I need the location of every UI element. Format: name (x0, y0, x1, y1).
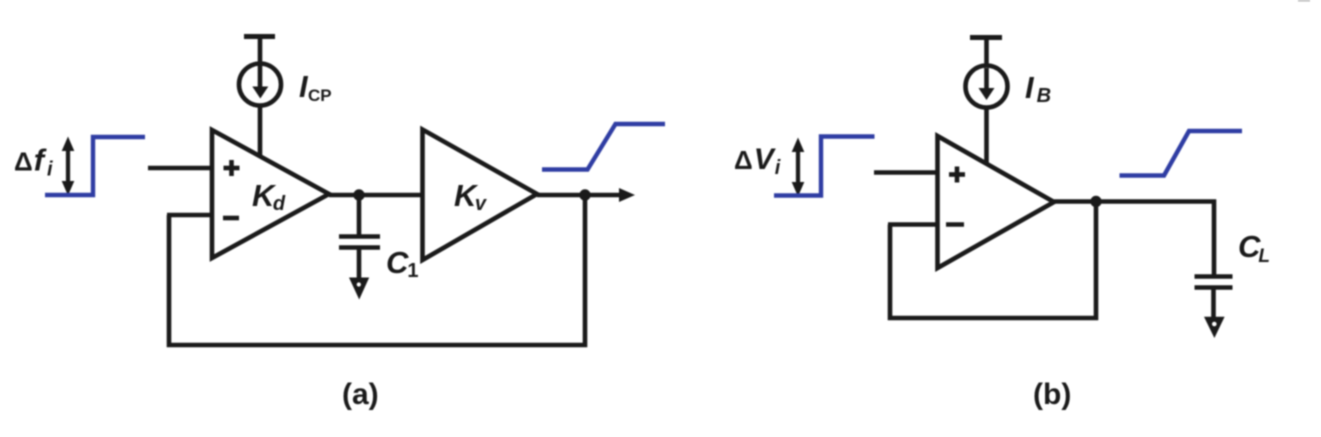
svg-text:ΔVi: ΔVi (734, 143, 781, 179)
svg-text:(a): (a) (342, 378, 379, 411)
svg-text:(b): (b) (1033, 378, 1071, 411)
svg-text:CP: CP (308, 86, 332, 105)
